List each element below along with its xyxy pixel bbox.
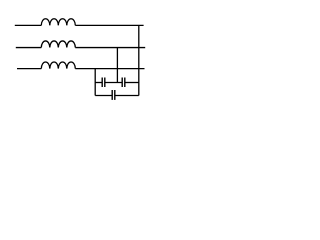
inductor L3 (41, 62, 75, 69)
capacitor C2 (122, 78, 125, 88)
wire phase 1 right segment (75, 24, 143, 26)
wire phase 3 right segment (75, 68, 144, 70)
inductor L2 (41, 41, 75, 48)
wire vertical drop from phase 3 to capacitor bottom row (94, 69, 96, 96)
capacitor C3 (112, 90, 115, 100)
wire phase 2 left segment (16, 47, 42, 49)
wire phase 2 right segment (75, 47, 145, 49)
capacitor C1 (102, 78, 105, 88)
inductor L1 (41, 19, 75, 26)
wire mid row left segment (95, 82, 102, 84)
wire mid row middle segment (105, 82, 122, 84)
wire bottom row left segment (95, 95, 112, 97)
wire mid row right segment (125, 82, 139, 84)
wire phase 1 left segment (15, 24, 42, 26)
wire vertical drop from phase 2 to capacitor mid row (116, 48, 118, 83)
wire bottom row right segment (115, 95, 139, 97)
wire phase 3 left segment (17, 68, 41, 70)
wire vertical drop from phase 1 to capacitor bottom row (138, 25, 140, 95)
